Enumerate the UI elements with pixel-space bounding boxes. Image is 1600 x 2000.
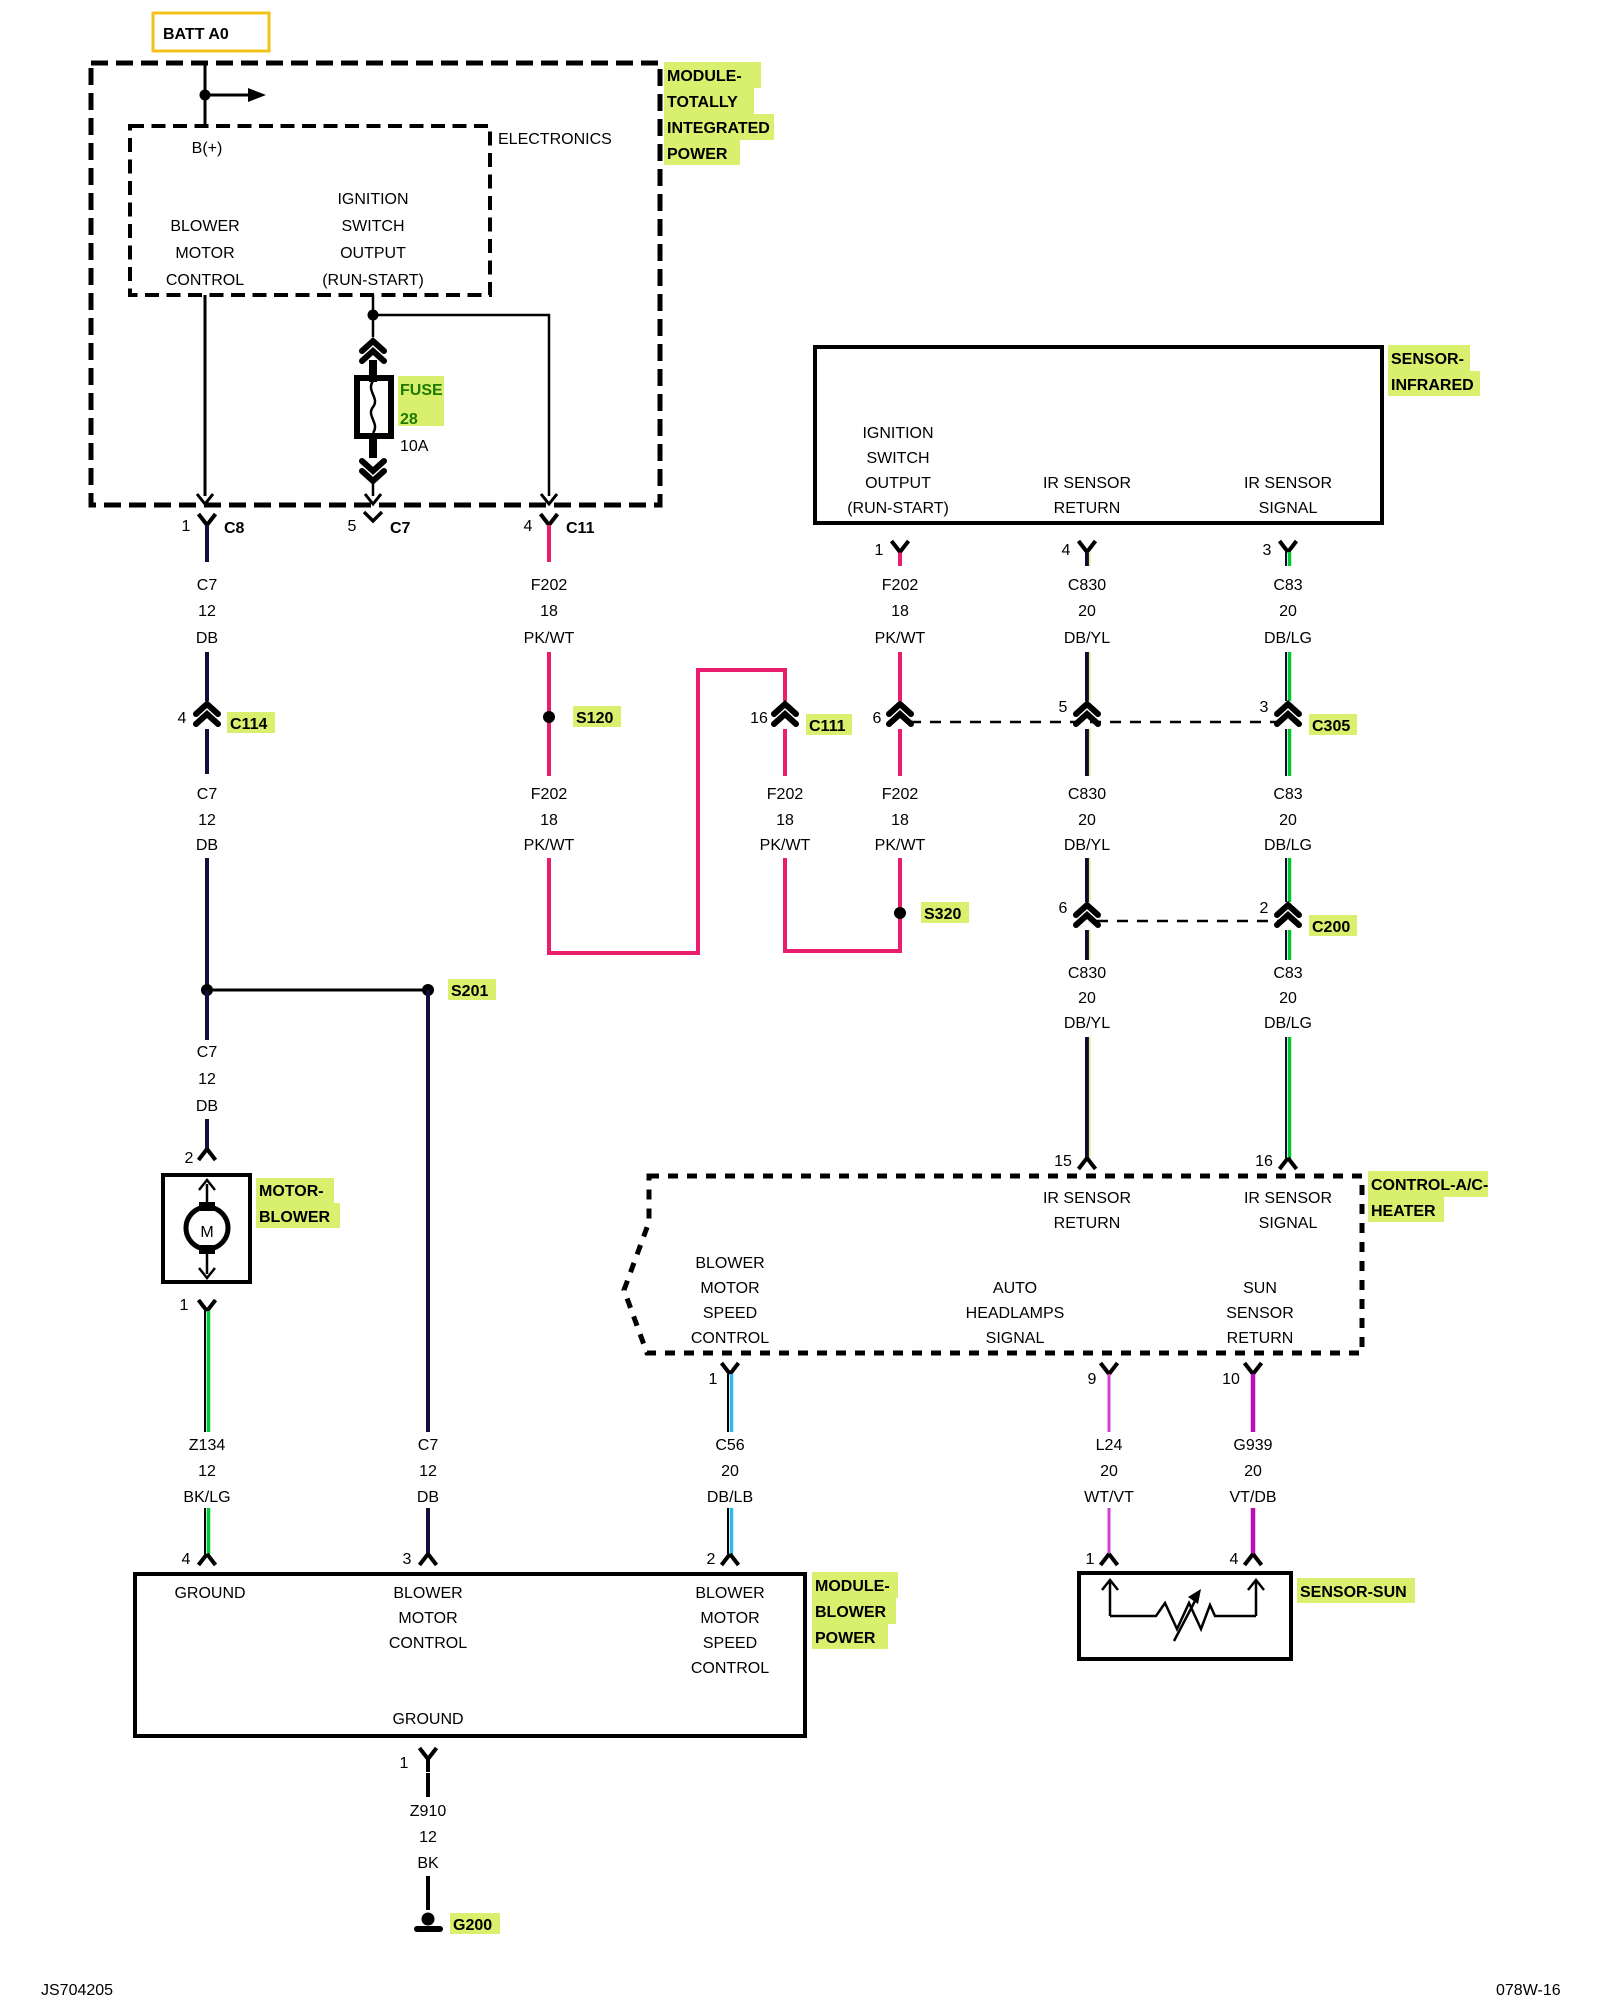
wire down to control pin 15: [1085, 1037, 1089, 1158]
svg-text:C83: C83: [1273, 965, 1302, 982]
svg-text:20: 20: [1100, 1463, 1118, 1480]
wire into fuse: [369, 360, 377, 382]
svg-text:12: 12: [198, 1071, 216, 1088]
svg-text:SIGNAL: SIGNAL: [986, 1330, 1045, 1347]
svg-text:IR SENSOR: IR SENSOR: [1244, 1190, 1332, 1207]
connector pin 2 of module-blower power: [722, 1554, 739, 1565]
node fuse feed junction: [368, 310, 379, 321]
svg-text:C200: C200: [1312, 919, 1350, 936]
svg-text:ELECTRONICS: ELECTRONICS: [498, 131, 612, 148]
svg-text:MOTOR: MOTOR: [175, 245, 234, 262]
svg-text:BLOWER: BLOWER: [259, 1209, 331, 1226]
svg-text:4: 4: [1062, 542, 1071, 559]
label MODULE-BLOWER POWER: [812, 1572, 898, 1649]
svg-text:20: 20: [1078, 603, 1096, 620]
svg-text:PK/WT: PK/WT: [524, 630, 575, 647]
svg-text:L24: L24: [1096, 1437, 1123, 1454]
wire DB/YL stem from sensor pin 4: [1085, 552, 1089, 566]
wire S201 to module pin 3: [426, 990, 430, 1432]
svg-text:M: M: [200, 1224, 213, 1241]
svg-text:1: 1: [180, 1297, 189, 1314]
svg-text:CONTROL: CONTROL: [389, 1635, 467, 1652]
svg-text:SWITCH: SWITCH: [866, 450, 929, 467]
ground G200: [414, 1913, 500, 1935]
svg-text:20: 20: [1078, 812, 1096, 829]
wire pink elbow run to C111: [549, 670, 785, 953]
svg-text:SIGNAL: SIGNAL: [1259, 500, 1318, 517]
wire: [1085, 930, 1089, 960]
dashed link C200 row: [1097, 920, 1280, 923]
module U5 SENSOR-SUN: [1079, 1573, 1291, 1659]
splice S320: [894, 902, 969, 923]
svg-text:BLOWER: BLOWER: [815, 1604, 887, 1621]
svg-text:3: 3: [1263, 542, 1272, 559]
svg-text:PK/WT: PK/WT: [875, 630, 926, 647]
svg-text:16: 16: [1255, 1153, 1273, 1170]
svg-text:4: 4: [524, 518, 533, 535]
svg-text:DB/LG: DB/LG: [1264, 837, 1312, 854]
svg-text:MODULE-: MODULE-: [667, 68, 742, 85]
svg-text:12: 12: [419, 1829, 437, 1846]
module U3 CONTROL-A/C-HEATER (dashed box with notched left edge): [624, 1176, 1362, 1353]
wire pink through S120: [547, 652, 551, 776]
svg-text:20: 20: [1244, 1463, 1262, 1480]
wire G939 VT/DB purple: [1251, 1374, 1256, 1432]
connector sensor pin 4: [1079, 541, 1096, 552]
svg-text:5: 5: [348, 518, 357, 535]
fuse F1 FUSE 28 10A: [357, 378, 391, 436]
svg-text:C7: C7: [390, 520, 411, 537]
connector module pin 1 (bottom): [420, 1748, 437, 1772]
svg-text:20: 20: [721, 1463, 739, 1480]
svg-text:C83: C83: [1273, 577, 1302, 594]
svg-text:RETURN: RETURN: [1227, 1330, 1294, 1347]
svg-text:DB/YL: DB/YL: [1064, 1015, 1110, 1032]
wire: [205, 729, 209, 774]
connector C111 pin 16 (in-line): [774, 704, 796, 724]
svg-text:DB/YL: DB/YL: [1064, 630, 1110, 647]
svg-text:10: 10: [1222, 1371, 1240, 1388]
svg-text:MOTOR: MOTOR: [700, 1610, 759, 1627]
svg-text:MOTOR: MOTOR: [700, 1280, 759, 1297]
module U2 SENSOR-INFRARED: [815, 347, 1382, 523]
svg-text:1: 1: [709, 1371, 718, 1388]
svg-text:C83: C83: [1273, 786, 1302, 803]
wire: [1285, 858, 1287, 902]
svg-text:MODULE-: MODULE-: [815, 1578, 890, 1595]
wire pink up to sensor: [898, 652, 902, 701]
svg-text:GROUND: GROUND: [174, 1585, 245, 1602]
svg-text:C830: C830: [1068, 965, 1106, 982]
connector pin 3 / C305 (in-line): [1277, 704, 1299, 724]
svg-text:3: 3: [1260, 699, 1269, 716]
connector pin 5 (in-line C305 row): [1076, 704, 1098, 724]
connector pin 6 (in-line, to C111 row): [889, 704, 911, 724]
wire arrow to right from B(+): [205, 94, 251, 97]
svg-text:VT/DB: VT/DB: [1229, 1489, 1276, 1506]
label MODULE-TOTALLY INTEGRATED POWER: [664, 62, 774, 165]
svg-text:5: 5: [1059, 699, 1068, 716]
svg-text:BLOWER: BLOWER: [695, 1255, 764, 1272]
connector control pin 9: [1101, 1363, 1118, 1374]
svg-text:10A: 10A: [400, 438, 429, 455]
svg-text:SPEED: SPEED: [703, 1305, 757, 1322]
wire: [1251, 1508, 1256, 1554]
svg-text:1: 1: [1086, 1551, 1095, 1568]
svg-text:18: 18: [891, 812, 909, 829]
svg-text:BATT A0: BATT A0: [163, 26, 229, 43]
svg-text:2: 2: [1260, 900, 1269, 917]
wire C8 stem dark blue: [205, 525, 209, 562]
svg-text:4: 4: [182, 1551, 191, 1568]
connector pin 2 / C200 (in-line): [1277, 905, 1299, 925]
svg-text:B(+): B(+): [192, 140, 223, 157]
svg-text:MOTOR-: MOTOR-: [259, 1183, 324, 1200]
wire below splice: [205, 990, 209, 1040]
svg-text:IGNITION: IGNITION: [337, 191, 408, 208]
svg-text:C7: C7: [197, 1044, 218, 1061]
svg-text:C305: C305: [1312, 718, 1350, 735]
connector pin 3 of module-blower power: [420, 1554, 437, 1565]
svg-text:9: 9: [1088, 1371, 1097, 1388]
svg-text:BLOWER: BLOWER: [170, 218, 239, 235]
wire pink elbow to S320 column: [785, 858, 900, 951]
svg-text:C111: C111: [809, 718, 846, 735]
svg-text:DB/YL: DB/YL: [1064, 837, 1110, 854]
svg-text:(RUN-START): (RUN-START): [847, 500, 949, 517]
svg-text:C830: C830: [1068, 577, 1106, 594]
svg-text:C114: C114: [230, 716, 267, 733]
svg-text:CONTROL: CONTROL: [166, 272, 244, 289]
svg-text:SENSOR-SUN: SENSOR-SUN: [1300, 1584, 1407, 1601]
wire down to splice: [205, 858, 209, 990]
svg-text:PK/WT: PK/WT: [875, 837, 926, 854]
wire: [1085, 652, 1089, 701]
svg-text:C7: C7: [418, 1437, 439, 1454]
value label FUSE 28: [398, 376, 444, 428]
svg-text:F202: F202: [531, 786, 568, 803]
wire: [205, 652, 209, 701]
connector pin 4 of sensor-sun: [1245, 1554, 1262, 1565]
svg-text:PK/WT: PK/WT: [524, 837, 575, 854]
svg-text:1: 1: [400, 1755, 409, 1772]
svg-text:IR SENSOR: IR SENSOR: [1244, 475, 1332, 492]
module U4 MODULE-BLOWER POWER: [135, 1574, 805, 1736]
connector pin 1 of sensor-sun: [1101, 1554, 1118, 1565]
wire junction to C11 exit: [373, 315, 549, 496]
label SENSOR-SUN: [1297, 1578, 1415, 1603]
wire from BATT A0 into electronics block: [204, 62, 207, 127]
svg-text:078W-16: 078W-16: [1496, 1982, 1561, 1999]
motor M1 MOTOR-BLOWER: [163, 1175, 250, 1282]
svg-text:DB/LG: DB/LG: [1264, 630, 1312, 647]
wire pink below C111: [783, 729, 787, 776]
wire: [1108, 1508, 1111, 1554]
svg-text:INTEGRATED: INTEGRATED: [667, 120, 770, 137]
connector control pin 15: [1079, 1158, 1096, 1169]
svg-text:S201: S201: [451, 983, 488, 1000]
svg-text:FUSE: FUSE: [400, 382, 443, 399]
connector pin 2 of motor: [199, 1149, 216, 1160]
wire DB/LG stem from sensor pin 3: [1285, 552, 1287, 566]
svg-text:2: 2: [707, 1551, 716, 1568]
svg-text:G200: G200: [453, 1917, 492, 1934]
wire fuse to C7 exit: [372, 480, 375, 496]
svg-text:20: 20: [1279, 603, 1297, 620]
splice S201: [201, 979, 496, 1000]
svg-text:2: 2: [185, 1150, 194, 1167]
svg-text:HEADLAMPS: HEADLAMPS: [966, 1305, 1065, 1322]
svg-text:RETURN: RETURN: [1054, 1215, 1121, 1232]
svg-text:RETURN: RETURN: [1054, 500, 1121, 517]
svg-text:DB: DB: [196, 837, 218, 854]
svg-text:4: 4: [178, 710, 187, 727]
svg-text:F202: F202: [882, 577, 919, 594]
svg-text:BLOWER: BLOWER: [393, 1585, 462, 1602]
svg-text:12: 12: [419, 1463, 437, 1480]
svg-text:SWITCH: SWITCH: [341, 218, 404, 235]
svg-text:1: 1: [875, 542, 884, 559]
svg-text:1: 1: [182, 518, 191, 535]
svg-text:JS704205: JS704205: [41, 1982, 113, 1999]
svg-text:S320: S320: [924, 906, 961, 923]
svg-text:16: 16: [750, 710, 768, 727]
svg-text:12: 12: [198, 603, 216, 620]
svg-text:PK/WT: PK/WT: [760, 837, 811, 854]
svg-text:18: 18: [540, 603, 558, 620]
svg-text:Z134: Z134: [189, 1437, 226, 1454]
connector sensor pin 3: [1280, 541, 1297, 552]
svg-text:DB: DB: [196, 1098, 218, 1115]
sub-block ELECTRONICS (inner dashed box): [130, 126, 490, 295]
wire: [1085, 729, 1089, 776]
connector half above fuse: [362, 341, 384, 361]
svg-text:3: 3: [403, 1551, 412, 1568]
svg-text:Z910: Z910: [410, 1803, 447, 1820]
svg-text:IR SENSOR: IR SENSOR: [1043, 1190, 1131, 1207]
module U1 MODULE-TOTALLY INTEGRATED POWER (outer dashed box): [91, 63, 660, 505]
svg-text:BK: BK: [417, 1855, 439, 1872]
svg-text:SENSOR: SENSOR: [1226, 1305, 1294, 1322]
wire down to control pin 16: [1285, 1037, 1287, 1158]
wire: [1085, 858, 1089, 902]
svg-text:4: 4: [1230, 1551, 1239, 1568]
svg-text:INFRARED: INFRARED: [1391, 377, 1474, 394]
svg-text:IGNITION: IGNITION: [862, 425, 933, 442]
connector sensor pin 1: [892, 541, 909, 552]
svg-text:12: 12: [198, 812, 216, 829]
connector pin 1 of motor: [199, 1300, 216, 1311]
label CONTROL-A/C-HEATER: [1368, 1171, 1488, 1222]
wire L24 WT/VT violet: [1108, 1374, 1111, 1432]
connector C114 pin 4 (in-line): [196, 704, 218, 724]
svg-text:CONTROL: CONTROL: [691, 1660, 769, 1677]
svg-text:AUTO: AUTO: [993, 1280, 1037, 1297]
wire pink through connector to row A: [898, 729, 902, 776]
svg-text:BLOWER: BLOWER: [695, 1585, 764, 1602]
wire C11 pink stem: [547, 525, 551, 562]
splice S120: [543, 706, 621, 727]
svg-text:15: 15: [1054, 1153, 1072, 1170]
svg-text:GROUND: GROUND: [392, 1711, 463, 1728]
wire out of fuse: [369, 434, 377, 458]
svg-text:28: 28: [400, 411, 418, 428]
connector control pin 1: [722, 1363, 739, 1374]
wire: [426, 1508, 430, 1554]
connector half below fuse: [362, 461, 384, 481]
dashed link C111/C305 row: [910, 721, 1280, 724]
wire: [1285, 652, 1287, 701]
svg-text:DB: DB: [417, 1489, 439, 1506]
connector control pin 10: [1245, 1363, 1262, 1374]
svg-text:(RUN-START): (RUN-START): [322, 272, 424, 289]
svg-text:SENSOR-: SENSOR-: [1391, 351, 1464, 368]
svg-text:C8: C8: [224, 520, 245, 537]
connector pin 6 (in-line C200 row): [1076, 905, 1098, 925]
wire: [727, 1508, 729, 1554]
variable resistor R1 inside sensor-sun: [1102, 1580, 1264, 1641]
svg-text:C11: C11: [566, 520, 595, 537]
svg-text:DB/LB: DB/LB: [707, 1489, 753, 1506]
svg-text:DB/LG: DB/LG: [1264, 1015, 1312, 1032]
svg-text:C7: C7: [197, 577, 218, 594]
svg-text:CONTROL: CONTROL: [691, 1330, 769, 1347]
node BATT A0: [153, 13, 269, 51]
svg-text:CONTROL-A/C-: CONTROL-A/C-: [1371, 1177, 1488, 1194]
svg-text:F202: F202: [767, 786, 804, 803]
svg-text:C830: C830: [1068, 786, 1106, 803]
svg-text:OUTPUT: OUTPUT: [340, 245, 406, 262]
svg-text:18: 18: [540, 812, 558, 829]
svg-text:20: 20: [1078, 990, 1096, 1007]
wire: [1285, 729, 1287, 776]
svg-text:DB: DB: [196, 630, 218, 647]
connector pin 4 of module-blower power: [199, 1554, 216, 1565]
wire ignition switch output down to junction: [372, 295, 375, 337]
label SENSOR-INFRARED: [1388, 345, 1480, 396]
svg-text:BK/LG: BK/LG: [183, 1489, 230, 1506]
svg-text:MOTOR: MOTOR: [398, 1610, 457, 1627]
svg-text:18: 18: [891, 603, 909, 620]
svg-text:C56: C56: [715, 1437, 744, 1454]
svg-text:F202: F202: [882, 786, 919, 803]
svg-text:12: 12: [198, 1463, 216, 1480]
svg-text:SUN: SUN: [1243, 1280, 1277, 1297]
svg-text:SIGNAL: SIGNAL: [1259, 1215, 1318, 1232]
svg-text:HEATER: HEATER: [1371, 1203, 1436, 1220]
svg-text:G939: G939: [1233, 1437, 1272, 1454]
wire C56 DB/LB black/cyan: [727, 1374, 729, 1432]
wire blower motor control down to C8 exit: [204, 295, 207, 496]
svg-text:18: 18: [776, 812, 794, 829]
connector control pin 16: [1280, 1158, 1297, 1169]
svg-text:POWER: POWER: [667, 146, 728, 163]
wire pink stem to sensor pin 1: [898, 552, 902, 566]
svg-text:S120: S120: [576, 710, 613, 727]
svg-text:20: 20: [1279, 990, 1297, 1007]
svg-text:WT/VT: WT/VT: [1084, 1489, 1134, 1506]
svg-text:F202: F202: [531, 577, 568, 594]
svg-text:SPEED: SPEED: [703, 1635, 757, 1652]
svg-text:6: 6: [873, 710, 882, 727]
svg-text:TOTALLY: TOTALLY: [667, 94, 738, 111]
node B(+) junction: [200, 90, 211, 101]
svg-text:20: 20: [1279, 812, 1297, 829]
wire to ground: [426, 1876, 430, 1910]
svg-text:C7: C7: [197, 786, 218, 803]
wire: [1285, 930, 1287, 960]
svg-text:OUTPUT: OUTPUT: [865, 475, 931, 492]
wire Z134 green/black: [204, 1311, 206, 1432]
wire stub: [205, 1119, 209, 1149]
svg-text:IR SENSOR: IR SENSOR: [1043, 475, 1131, 492]
svg-text:6: 6: [1059, 900, 1068, 917]
wire DB/YL yellow stripe: [1089, 552, 1091, 566]
wire: [204, 1508, 206, 1554]
wire Z910 black: [426, 1773, 430, 1797]
label MOTOR-BLOWER: [256, 1178, 340, 1228]
svg-text:POWER: POWER: [815, 1630, 876, 1647]
